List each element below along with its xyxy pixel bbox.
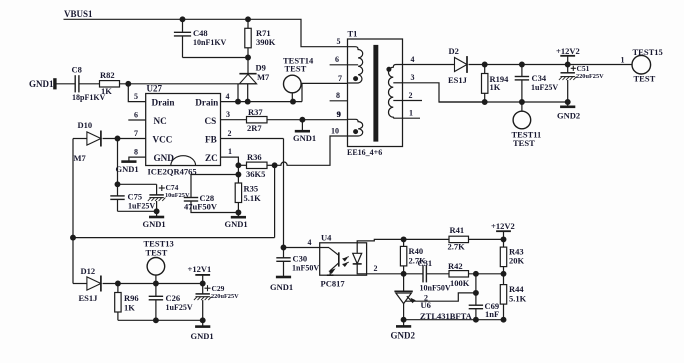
junction R40 bottom / TL431 cathode: [401, 271, 406, 276]
svg-text:GND1: GND1: [143, 219, 166, 229]
wire drain pin4 run: [221, 101, 303, 103]
resistor R96: [117, 284, 119, 293]
svg-text:2: 2: [228, 129, 232, 138]
svg-text:9: 9: [337, 110, 341, 119]
svg-text:220uF25V: 220uF25V: [211, 293, 239, 300]
svg-text:R36: R36: [247, 152, 262, 162]
wire FB to U4: [284, 247, 320, 249]
power +12V1: [188, 264, 212, 274]
ground GND1 pin8: [121, 160, 136, 163]
svg-text:TEST: TEST: [634, 74, 656, 84]
U4 light arrows: [344, 257, 349, 259]
junction D2 out: [482, 62, 487, 67]
svg-text:M7: M7: [257, 72, 270, 82]
svg-text:1nF50V: 1nF50V: [292, 264, 319, 273]
capacitor C30: [283, 248, 285, 258]
svg-text:5: 5: [337, 37, 341, 46]
ground GND2 U6: [396, 325, 411, 328]
svg-text:C74: C74: [166, 183, 179, 192]
svg-text:EE16_4+6: EE16_4+6: [347, 148, 382, 157]
svg-text:Drain: Drain: [152, 98, 175, 108]
ground GND1 R35: [231, 216, 246, 219]
svg-text:R35: R35: [244, 184, 259, 194]
wire secondary gnd rail: [439, 101, 568, 103]
U27 pin 8 to ground: [129, 157, 146, 161]
junction C48 top: [180, 17, 185, 22]
svg-text:FB: FB: [205, 135, 217, 145]
svg-text:8: 8: [134, 148, 138, 157]
test point TEST13: [144, 238, 174, 248]
svg-text:47uF50V: 47uF50V: [184, 202, 218, 212]
svg-text:PC817: PC817: [321, 279, 346, 289]
svg-text:10: 10: [331, 127, 339, 136]
diode D10: [73, 138, 87, 140]
wire drain rise to pin7: [302, 83, 348, 101]
wire FB net: [221, 138, 284, 140]
T1 primary winding 9-10: [348, 119, 363, 136]
svg-text:ZC: ZC: [205, 153, 218, 163]
wire drain net horizontal: [120, 83, 257, 85]
svg-text:+12V2: +12V2: [491, 221, 515, 231]
svg-text:1uF25V: 1uF25V: [166, 303, 193, 312]
test point TEST14: [283, 56, 314, 66]
svg-text:GND: GND: [154, 153, 175, 163]
resistor R82: [100, 81, 120, 87]
optocoupler U4: [320, 243, 367, 275]
svg-text:220uF25V: 220uF25V: [576, 73, 604, 80]
wire to pin 5: [128, 84, 145, 102]
resistor R36: [238, 164, 246, 166]
svg-text:D9: D9: [256, 63, 266, 73]
capacitor C75: [110, 195, 124, 197]
svg-text:C51: C51: [577, 64, 590, 73]
svg-text:ES1J: ES1J: [79, 293, 99, 303]
transformer T1: [348, 39, 403, 147]
svg-text:R82: R82: [100, 70, 115, 80]
svg-text:TEST15: TEST15: [633, 47, 663, 57]
junction gnd rail: [154, 209, 159, 214]
junction R71 top: [246, 17, 251, 22]
svg-text:NC: NC: [154, 116, 167, 126]
svg-text:T1: T1: [348, 29, 358, 39]
junction snubber: [246, 55, 251, 60]
ground GND1 C29: [195, 325, 210, 328]
diode D12: [73, 283, 87, 285]
wire C8 to R82: [79, 83, 100, 85]
IC U27: [146, 94, 221, 166]
svg-text:1K: 1K: [490, 82, 501, 92]
svg-text:GND1: GND1: [225, 219, 248, 229]
svg-text:C48: C48: [193, 28, 208, 38]
svg-text:1K: 1K: [124, 302, 135, 312]
ground GND1 CS: [301, 120, 303, 131]
wire U4 pin2 net: [367, 273, 404, 275]
wire U4 anode to divider rail: [357, 239, 403, 242]
svg-text:4: 4: [226, 92, 230, 101]
resistor R40: [403, 239, 405, 246]
T1 pin5 label: [337, 37, 341, 46]
svg-text:4: 4: [411, 55, 415, 64]
svg-text:390K: 390K: [256, 37, 276, 47]
T1 pin2 stub: [403, 100, 423, 102]
capacitor C26: [155, 284, 157, 297]
resistor R194: [484, 65, 486, 74]
capacitor C8: [74, 75, 76, 92]
wire VCC gnd rail: [118, 210, 157, 212]
svg-text:8: 8: [336, 91, 340, 100]
svg-text:C8: C8: [72, 65, 82, 75]
ground GND2 output: [560, 106, 575, 109]
svg-text:2.7K: 2.7K: [448, 242, 466, 252]
wire GND2 rail: [404, 319, 504, 321]
junction TEST14 stub: [291, 99, 296, 104]
junction drain drops: [236, 99, 241, 104]
T1 dot lower: [354, 130, 358, 134]
svg-text:5.1K: 5.1K: [244, 193, 262, 203]
junction aux: [272, 163, 277, 168]
wire TL431 ref: [406, 293, 476, 301]
svg-text:C29: C29: [212, 284, 225, 293]
shunt regulator U6 ZTL431BFTA: [403, 274, 405, 291]
svg-text:R42: R42: [448, 261, 463, 271]
capacitor C74: [156, 184, 158, 195]
junction ZC: [236, 163, 241, 168]
capacitor C48: [182, 19, 184, 32]
svg-text:1: 1: [621, 55, 625, 64]
T1 pin1 stub: [403, 117, 421, 119]
T1 pin6 tap: [330, 64, 359, 66]
U27 pin 6 stub: [128, 119, 145, 121]
svg-text:7: 7: [134, 129, 138, 138]
resistor R42: [426, 273, 449, 275]
power +12V2 divider: [491, 221, 515, 231]
svg-text:5: 5: [134, 92, 138, 101]
svg-text:VCC: VCC: [153, 135, 173, 145]
svg-text:R37: R37: [248, 107, 263, 117]
diode D9: [247, 58, 249, 74]
wire ZC pin: [221, 157, 239, 165]
T1 core: [374, 46, 378, 142]
svg-text:36K5: 36K5: [246, 169, 265, 179]
wire aux to supply rail: [274, 165, 276, 237]
svg-text:GND1: GND1: [191, 331, 214, 341]
svg-text:6: 6: [134, 110, 138, 119]
T1 primary winding 5-7: [348, 47, 363, 83]
ground GND1 C30: [276, 276, 291, 279]
svg-text:20K: 20K: [509, 256, 525, 266]
junction R42 right / C69: [474, 271, 479, 276]
wire pin3 to gnd rail: [403, 83, 485, 102]
svg-text:C34: C34: [532, 73, 547, 83]
svg-text:4: 4: [308, 238, 312, 247]
wire bottom-left aux rail: [72, 139, 74, 284]
svg-text:2: 2: [374, 264, 378, 273]
wire pin4 secondary out: [403, 64, 455, 66]
resistor R43: [503, 239, 505, 247]
wire GND1 to C8: [56, 83, 75, 85]
wire VCC cap rail: [118, 183, 157, 185]
svg-text:D10: D10: [78, 120, 93, 130]
wire to TEST15: [621, 55, 625, 64]
svg-text:GND1: GND1: [270, 282, 293, 292]
svg-text:GND1: GND1: [29, 79, 54, 89]
junction drain/pin5: [126, 81, 131, 86]
junction divider mid: [501, 271, 506, 276]
capacitor C51: [567, 65, 569, 73]
svg-text:ES1J: ES1J: [448, 75, 468, 85]
capacitor C34: [521, 65, 523, 77]
svg-text:VBUS1: VBUS1: [64, 9, 93, 19]
svg-text:GND2: GND2: [391, 331, 416, 341]
wire D9 anode drops: [237, 84, 239, 102]
svg-text:5.1K: 5.1K: [509, 293, 527, 303]
capacitor C28: [191, 175, 238, 198]
svg-text:U4: U4: [321, 232, 332, 242]
svg-text:M7: M7: [74, 153, 87, 163]
svg-text:GND1: GND1: [293, 133, 316, 143]
resistor R37 / CS net: [221, 119, 247, 121]
svg-text:1K: 1K: [101, 86, 112, 96]
svg-text:1uF25V: 1uF25V: [128, 202, 155, 211]
capacitor C29: [202, 284, 204, 294]
svg-text:3: 3: [226, 110, 230, 119]
resistor R71: [247, 19, 249, 28]
junction VCC rail: [115, 182, 120, 187]
junction C51 top: [565, 62, 570, 67]
resistor R44: [503, 274, 505, 285]
junction R41 right: [501, 237, 506, 242]
test point TEST11: [521, 102, 523, 111]
svg-text:CS: CS: [205, 116, 217, 126]
svg-text:1: 1: [228, 147, 232, 156]
junction CS gnd: [300, 117, 305, 122]
svg-text:+12V2: +12V2: [556, 46, 580, 56]
svg-text:6: 6: [335, 55, 339, 64]
capacitor C31: [404, 273, 423, 275]
resistor R41: [404, 238, 449, 240]
svg-text:2: 2: [409, 91, 413, 100]
wire +12V1 gnd rail: [118, 319, 203, 321]
svg-text:+12V1: +12V1: [188, 264, 212, 274]
junction +12V1 net: [116, 281, 121, 286]
svg-text:7: 7: [338, 74, 342, 83]
svg-text:U27: U27: [147, 84, 163, 94]
svg-text:TEST: TEST: [513, 138, 535, 148]
svg-text:GND1: GND1: [116, 164, 139, 174]
net label VBUS1: [64, 9, 93, 19]
T1 dot secondary: [387, 67, 391, 71]
junction R40 top: [401, 237, 406, 242]
svg-text:10nF1KV: 10nF1KV: [193, 38, 227, 47]
svg-text:1uF25V: 1uF25V: [531, 83, 558, 92]
svg-text:D2: D2: [449, 46, 459, 56]
diode D2: [455, 58, 468, 72]
svg-text:10nF50V: 10nF50V: [420, 283, 451, 292]
U4 phototransistor: [338, 252, 340, 266]
svg-text:2R7: 2R7: [247, 123, 262, 133]
svg-text:TEST: TEST: [146, 247, 168, 257]
T1 dot upper: [354, 77, 358, 81]
capacitor C69: [475, 274, 477, 305]
svg-text:R41: R41: [450, 225, 465, 235]
svg-text:ICE2QR4765: ICE2QR4765: [148, 166, 197, 176]
T1 pin8 stub: [330, 100, 348, 102]
svg-text:1nF: 1nF: [485, 309, 499, 319]
resistor R35: [237, 165, 239, 183]
svg-text:C31: C31: [418, 258, 433, 268]
svg-text:1: 1: [409, 109, 413, 118]
svg-text:Drain: Drain: [195, 98, 218, 108]
port GND1: [29, 79, 54, 89]
svg-text:C75: C75: [128, 192, 143, 202]
svg-text:D12: D12: [81, 266, 96, 276]
junction FB collector: [281, 245, 286, 250]
svg-text:C26: C26: [166, 293, 181, 303]
wire VCC vertical: [117, 139, 119, 196]
U4 led: [356, 243, 358, 254]
wire snubber bottom: [183, 57, 249, 59]
power +12V2 output: [556, 46, 580, 56]
wire aux net with hop: [275, 136, 348, 165]
ground GND1 vcc caps: [149, 216, 164, 219]
svg-text:100K: 100K: [450, 278, 470, 288]
svg-text:C30: C30: [293, 253, 308, 263]
test point TEST15: [633, 47, 663, 57]
T1 secondary taps: [393, 82, 402, 84]
svg-text:GND2: GND2: [557, 111, 580, 121]
wire VBUS1 rail: [64, 19, 348, 46]
svg-text:3: 3: [411, 73, 415, 82]
junction C34 top: [520, 62, 525, 67]
T1 secondary winding: [388, 65, 402, 119]
junction VCC: [115, 136, 120, 141]
svg-text:TEST: TEST: [285, 63, 307, 73]
